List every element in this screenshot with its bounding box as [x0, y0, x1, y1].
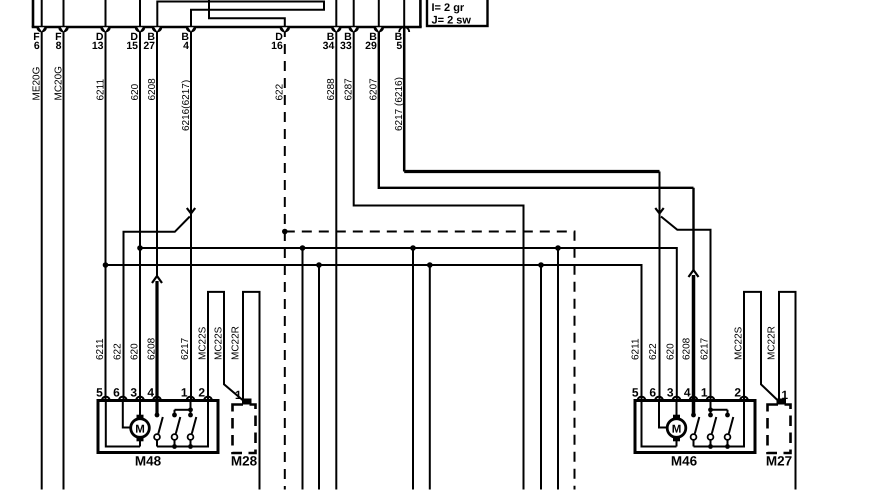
svg-text:4: 4 — [183, 40, 189, 52]
svg-text:MC22S: MC22S — [198, 326, 209, 360]
svg-text:2: 2 — [198, 385, 205, 399]
svg-text:622: 622 — [648, 343, 659, 360]
svg-text:MC22R: MC22R — [231, 326, 242, 360]
svg-text:2: 2 — [734, 385, 741, 399]
svg-text:M: M — [135, 424, 145, 436]
svg-text:620: 620 — [130, 343, 141, 360]
svg-text:4: 4 — [684, 385, 691, 399]
svg-text:5: 5 — [96, 385, 103, 399]
svg-text:6211: 6211 — [95, 338, 106, 360]
svg-text:16: 16 — [271, 40, 283, 52]
svg-text:M28: M28 — [231, 453, 258, 468]
svg-text:3: 3 — [130, 385, 137, 399]
svg-text:1: 1 — [781, 388, 788, 402]
svg-text:6208: 6208 — [682, 337, 693, 360]
svg-text:5: 5 — [632, 385, 639, 399]
svg-text:4: 4 — [147, 385, 154, 399]
svg-text:6217: 6217 — [180, 337, 191, 360]
svg-text:6208: 6208 — [147, 337, 158, 360]
svg-text:13: 13 — [92, 40, 104, 52]
svg-text:6: 6 — [649, 385, 656, 399]
svg-text:29: 29 — [365, 40, 377, 52]
svg-text:6: 6 — [113, 385, 120, 399]
svg-text:27: 27 — [143, 40, 155, 52]
svg-text:34: 34 — [323, 40, 335, 52]
svg-text:33: 33 — [340, 40, 352, 52]
svg-text:I= 2 gr: I= 2 gr — [431, 2, 464, 14]
svg-text:MC22R: MC22R — [767, 326, 778, 360]
svg-text:8: 8 — [56, 40, 62, 52]
svg-text:5: 5 — [396, 40, 402, 52]
svg-text:J= 2 sw: J= 2 sw — [431, 15, 471, 27]
svg-text:6: 6 — [34, 40, 40, 52]
svg-text:1: 1 — [235, 388, 242, 402]
svg-text:M27: M27 — [766, 453, 792, 468]
svg-text:M46: M46 — [671, 453, 698, 468]
svg-text:15: 15 — [126, 40, 138, 52]
svg-text:6211: 6211 — [631, 338, 642, 360]
svg-text:MC22S: MC22S — [734, 326, 745, 360]
svg-text:1: 1 — [181, 385, 188, 399]
svg-text:6217: 6217 — [700, 337, 711, 360]
svg-text:M48: M48 — [135, 453, 162, 468]
svg-text:M: M — [672, 424, 682, 436]
svg-text:622: 622 — [112, 343, 123, 360]
svg-text:MC22S: MC22S — [214, 326, 225, 360]
svg-text:620: 620 — [666, 343, 677, 360]
svg-text:3: 3 — [667, 385, 674, 399]
svg-text:1: 1 — [701, 385, 708, 399]
